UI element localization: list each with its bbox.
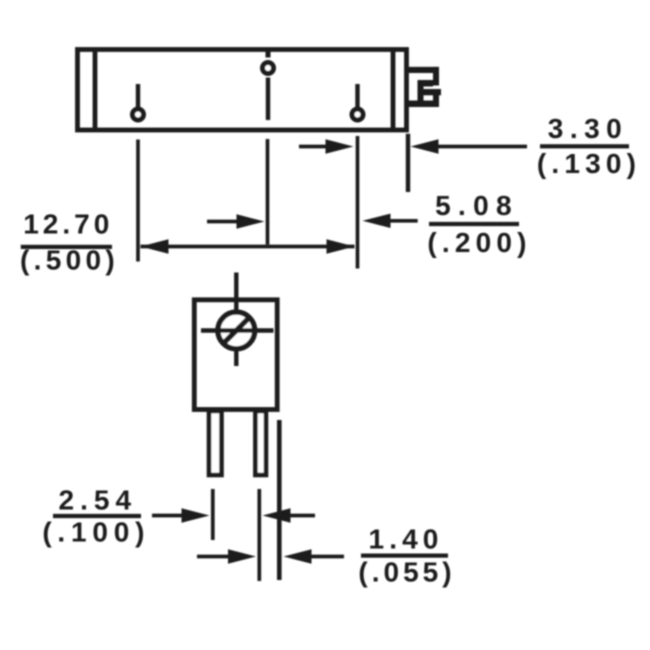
dim 3.30 arrowhead left	[411, 139, 439, 153]
dim 1.40 arrow shaft right-pointing	[197, 555, 232, 559]
dim 1.40 arrowhead left-pointing	[284, 549, 312, 563]
svg-text:(.130): (.130)	[537, 148, 641, 179]
side adjust screw top bar	[406, 67, 439, 73]
svg-text:12.70: 12.70	[23, 209, 113, 240]
dim 5.08 arrowhead right-pointing	[237, 214, 265, 228]
dim 1.40 arrow shaft left-pointing	[308, 555, 344, 559]
pin 2 ring	[263, 63, 274, 74]
pin 3 stem	[355, 84, 359, 107]
dim 3.30 opposing arrowhead right	[326, 139, 354, 153]
label 2.54 fraction bar	[53, 514, 141, 518]
pin 3 ring	[352, 109, 363, 120]
dim 5.08 arrowhead left-pointing	[363, 214, 391, 228]
dim 5.08 arrow shaft left-pointing	[388, 219, 418, 223]
svg-text:1.40: 1.40	[369, 524, 444, 555]
leg 2 outline	[255, 411, 266, 475]
screw slot spine	[418, 80, 424, 101]
extension line leg 2	[257, 489, 261, 581]
top view inner right line	[391, 50, 396, 131]
adjustment screw face	[218, 312, 255, 349]
extension line body right edge	[406, 134, 410, 192]
dim 5.08 arrow shaft right-pointing	[207, 220, 240, 224]
dim 3.30 opposing arrow shaft	[299, 145, 331, 149]
dim 2.54 arrowhead right-pointing	[182, 508, 210, 522]
svg-text:2.54: 2.54	[59, 484, 138, 515]
dim 2.54 arrowhead left-pointing	[263, 508, 291, 522]
extension line leg 1	[211, 489, 215, 540]
leg 3 line	[277, 420, 282, 580]
extension line pin 1	[136, 140, 140, 262]
svg-text:(.100): (.100)	[42, 517, 150, 548]
svg-text:5.08: 5.08	[435, 190, 519, 221]
screw slot lower arm	[418, 89, 442, 95]
svg-text:3.30: 3.30	[548, 113, 629, 144]
label 1.40 fraction bar	[361, 554, 448, 558]
side adjust screw right edge lower	[433, 89, 439, 107]
front view body outline	[194, 300, 277, 410]
dim 12.70 arrowhead right	[327, 239, 355, 253]
dim 3.30 arrow shaft	[436, 145, 527, 149]
extension line pin 2	[266, 139, 270, 245]
side adjust screw bottom bar	[406, 101, 439, 108]
label 3.30 fraction bar	[540, 144, 629, 148]
label 5.08 fraction bar	[429, 222, 519, 226]
svg-text:(.055): (.055)	[358, 557, 455, 588]
pin 1 ring	[133, 109, 144, 120]
dim 1.40 arrowhead right-pointing	[228, 549, 256, 563]
pin 2 stem	[266, 78, 270, 121]
front view center line	[234, 273, 238, 367]
dim 12.70 arrowhead left	[141, 239, 169, 253]
screw crosshair horizontal	[201, 328, 274, 332]
pin 1 stem	[136, 84, 140, 107]
screw slot diagonal	[220, 314, 253, 347]
pin 2 stub	[266, 50, 271, 58]
extension line pin 3	[356, 136, 360, 269]
svg-text:(.500): (.500)	[20, 245, 119, 276]
label 12.70 fraction bar	[21, 245, 112, 249]
dim 2.54 arrow shaft left-pointing	[287, 514, 315, 518]
leg 1 outline	[209, 411, 222, 475]
top view body outline	[78, 50, 407, 131]
dim 12.70 line	[141, 245, 355, 249]
side adjust screw right edge upper	[433, 67, 439, 86]
top view inner left line	[93, 50, 98, 131]
dim 2.54 arrow shaft right-pointing	[152, 514, 185, 518]
svg-text:(.200): (.200)	[427, 227, 531, 258]
screw slot upper arm	[418, 80, 434, 87]
